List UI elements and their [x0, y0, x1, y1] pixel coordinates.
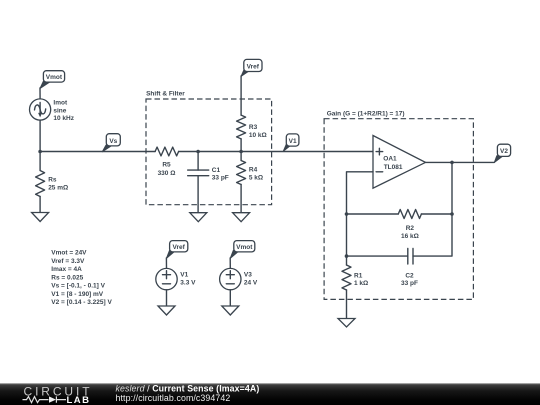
resistor R1 1 kOhm	[342, 256, 368, 318]
wire R3/R4 node to op-amp + input (passes V1 flag)	[241, 151, 373, 153]
svg-text:V3: V3	[244, 272, 252, 279]
svg-text:33 pF: 33 pF	[401, 280, 418, 287]
wire Vmot flag to V3 source	[229, 258, 231, 269]
svg-text:24 V: 24 V	[244, 280, 258, 287]
svg-text:Rs = 0.025: Rs = 0.025	[51, 274, 83, 281]
svg-text:5 kΩ: 5 kΩ	[249, 175, 263, 182]
svg-text:V1: V1	[289, 138, 297, 145]
resistor R5 330 Ohm	[155, 147, 179, 177]
wire main node to R5	[40, 151, 155, 153]
dashed box Shift & Filter	[146, 90, 272, 204]
node junction at R3/R4	[239, 150, 243, 154]
wire C1 node to R3/R4 node	[198, 151, 241, 153]
svg-text:R1: R1	[354, 273, 363, 280]
svg-text:http://circuitlab.com/c394742: http://circuitlab.com/c394742	[116, 393, 231, 403]
flag Vmot (top)	[40, 71, 65, 89]
svg-text:Vs = [-0.1, - 0.1] V: Vs = [-0.1, - 0.1] V	[51, 283, 105, 290]
svg-text:sine: sine	[53, 107, 66, 114]
svg-text:keslerd / Current Sense (Imax=: keslerd / Current Sense (Imax=4A)	[116, 384, 260, 394]
svg-text:V2: V2	[500, 148, 508, 155]
svg-text:Vs: Vs	[109, 138, 117, 145]
ground below Rs	[32, 213, 49, 222]
capacitor C1 33 pF	[188, 152, 229, 213]
wire V1 source to ground	[166, 290, 168, 306]
svg-text:Imax = 4A: Imax = 4A	[51, 266, 82, 273]
voltage source V3 24 V	[220, 268, 258, 289]
svg-text:Imot: Imot	[53, 99, 68, 106]
wire R5 to C1 node	[179, 151, 199, 153]
wire output node down to C2 right	[413, 162, 452, 256]
flag Vref (top)	[241, 59, 262, 76]
svg-text:V2 = [0.14 - 3.225] V: V2 = [0.14 - 3.225] V	[51, 299, 112, 306]
wire op-amp output to V2	[426, 161, 495, 163]
current source I1 Imot	[29, 99, 74, 122]
svg-text:Rs: Rs	[48, 177, 57, 184]
svg-text:R2: R2	[406, 225, 415, 232]
svg-text:10 kΩ: 10 kΩ	[249, 132, 267, 139]
svg-text:C1: C1	[212, 167, 221, 174]
wire V3 source to ground	[229, 290, 231, 306]
resistor R2 16 kOhm	[347, 210, 453, 240]
wire R3 to main node	[240, 139, 242, 152]
ground below C1	[190, 213, 207, 222]
svg-text:25 mΩ: 25 mΩ	[48, 185, 68, 192]
svg-text:C2: C2	[405, 273, 414, 280]
svg-text:16 kΩ: 16 kΩ	[401, 233, 419, 240]
svg-text:TL081: TL081	[384, 164, 403, 171]
svg-text:R3: R3	[249, 124, 258, 131]
dashed box Gain	[324, 111, 473, 300]
wire op-amp inverting input to feedback node	[347, 172, 374, 214]
flag Vmot (at V3 source)	[230, 241, 255, 259]
node junction R2 left	[345, 212, 349, 216]
ground below R4	[233, 213, 250, 222]
svg-text:R4: R4	[249, 167, 258, 174]
svg-text:R5: R5	[162, 161, 171, 168]
wire Vmot flag to Imot source	[39, 88, 41, 99]
wire R2 left node down to C2/R1 node	[346, 214, 348, 256]
svg-text:OA1: OA1	[383, 156, 397, 163]
wire Vref flag to V1 source	[165, 258, 167, 269]
capacitor C2 33 pF	[347, 249, 419, 287]
svg-text:Shift & Filter: Shift & Filter	[146, 90, 185, 97]
svg-text:V1: V1	[180, 272, 188, 279]
node junction at Vs column	[38, 150, 42, 154]
node junction at output	[450, 161, 454, 165]
svg-text:33 pF: 33 pF	[212, 175, 229, 182]
CircuitLab logo resistor zigzag	[23, 397, 49, 403]
svg-text:Vref = 3.3V: Vref = 3.3V	[51, 258, 85, 265]
svg-text:3.3 V: 3.3 V	[180, 280, 196, 287]
svg-text:Vmot = 24V: Vmot = 24V	[51, 250, 87, 257]
CircuitLab logo diode	[49, 396, 56, 402]
flag V2	[494, 144, 510, 162]
svg-text:Vref: Vref	[247, 64, 260, 71]
voltage source V1 3.3 V	[156, 268, 196, 289]
ground below V1	[158, 306, 175, 315]
svg-text:V1 = [8 - 190] mV: V1 = [8 - 190] mV	[51, 291, 104, 298]
flag V1	[283, 134, 299, 151]
wire Vref flag to R3	[240, 76, 242, 115]
resistor Rs 25 mOhm	[36, 152, 69, 213]
resistor R4 5 kOhm	[237, 152, 264, 213]
resistor R3 10 kOhm	[237, 115, 267, 139]
flag Vs	[102, 134, 120, 152]
svg-text:1 kΩ: 1 kΩ	[354, 280, 368, 287]
svg-text:10 kHz: 10 kHz	[53, 115, 74, 122]
op-amp U1 OA1 TL081	[373, 136, 426, 189]
wire Imot to main node	[39, 120, 41, 151]
svg-text:LAB: LAB	[67, 395, 91, 405]
svg-text:Gain (G = (1+R2/R1) = 17): Gain (G = (1+R2/R1) = 17)	[327, 111, 405, 118]
node junction R2 right	[450, 212, 454, 216]
node junction at C1	[196, 150, 200, 154]
svg-text:Vmot: Vmot	[46, 74, 63, 81]
svg-text:Vref: Vref	[173, 244, 186, 251]
svg-text:330 Ω: 330 Ω	[158, 170, 176, 177]
annotation text block	[51, 250, 112, 307]
flag Vref (at V1 source)	[166, 241, 187, 259]
node junction C2 left	[345, 254, 349, 258]
ground below V3	[222, 306, 239, 315]
svg-text:Vmot: Vmot	[236, 244, 253, 251]
ground below R1	[338, 319, 355, 328]
